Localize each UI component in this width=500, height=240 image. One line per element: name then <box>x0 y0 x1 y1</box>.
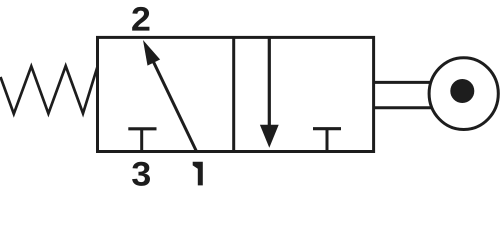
plunger rod lower line <box>375 106 431 109</box>
right box: down arrowhead <box>260 125 279 148</box>
right box: blocked port (T symbol) bar <box>313 127 341 130</box>
position divider <box>232 37 235 151</box>
roller center dot <box>450 79 474 103</box>
left box: arrowhead at port 2 <box>143 40 160 66</box>
roller circle <box>429 58 498 130</box>
right box: down flow arrow shaft <box>268 36 271 130</box>
plunger rod upper line <box>375 81 431 84</box>
port label 3 <box>132 162 150 186</box>
port label 2 <box>132 7 149 31</box>
left box: flow-path arrow 1 to 2 (shaft) <box>152 59 196 151</box>
left box: blocked port 3 (T symbol) bar <box>128 127 156 130</box>
valve body outline (two-position box) <box>98 37 374 151</box>
left box: blocked port 3 (T symbol) stem <box>140 129 143 152</box>
return spring <box>1 66 98 114</box>
right box: blocked port (T symbol) stem <box>326 128 329 151</box>
port label 1 <box>193 162 203 186</box>
